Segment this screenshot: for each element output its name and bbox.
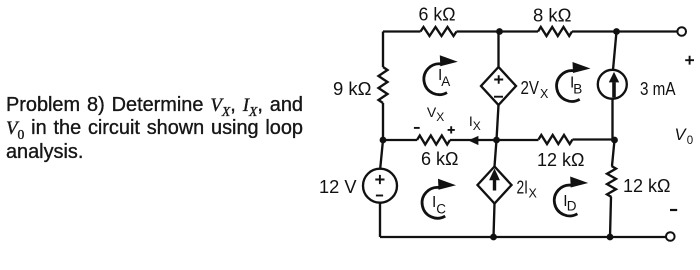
svg-text:2I: 2I <box>517 178 529 198</box>
svg-text:D: D <box>567 198 577 213</box>
svg-text:3 mA: 3 mA <box>640 79 676 99</box>
svg-text:0: 0 <box>687 135 693 147</box>
svg-text:12 V: 12 V <box>319 177 357 197</box>
svg-text:6 kΩ: 6 kΩ <box>419 5 456 25</box>
svg-text:12 kΩ: 12 kΩ <box>623 176 670 196</box>
svg-text:X: X <box>540 87 549 101</box>
svg-text:12 kΩ: 12 kΩ <box>537 150 584 170</box>
svg-text:9 kΩ: 9 kΩ <box>333 79 372 99</box>
svg-text:V: V <box>675 126 688 144</box>
svg-text:6 kΩ: 6 kΩ <box>421 149 458 169</box>
svg-text:C: C <box>436 201 446 216</box>
svg-text:IX: IX <box>469 113 481 133</box>
svg-text:A: A <box>441 74 450 89</box>
svg-text:VX: VX <box>427 104 444 124</box>
svg-text:B: B <box>573 81 582 96</box>
svg-text:2V: 2V <box>521 78 540 98</box>
svg-text:X: X <box>529 187 538 201</box>
svg-text:8 kΩ: 8 kΩ <box>533 6 572 26</box>
